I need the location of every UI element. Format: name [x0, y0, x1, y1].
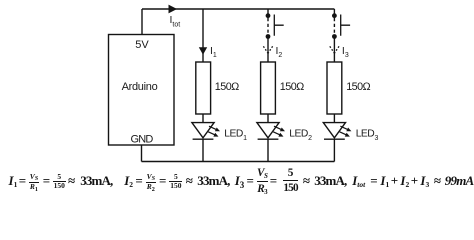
svg-text:LED1: LED1 [224, 129, 247, 142]
wire 5V riser [141, 9, 143, 35]
formula I2 = VS/R2 = 5/150 ~ 33mA [124, 173, 133, 190]
arrow Itot [169, 5, 178, 14]
svg-text:LED2: LED2 [289, 129, 312, 142]
probe bracket branch3 [341, 15, 350, 36]
svg-text:LED3: LED3 [356, 129, 379, 142]
junction dot branch2 bottom [266, 34, 271, 39]
wire top bus [142, 8, 334, 10]
svg-text:5V: 5V [135, 39, 149, 51]
wire GND drop [141, 145, 143, 162]
junction dot branch3 bottom [332, 34, 337, 39]
svg-text:GND: GND [130, 134, 153, 146]
dashed link branch3 [333, 18, 335, 34]
junction dot branch2 top [266, 13, 271, 18]
wire R1 to LED1 [202, 114, 204, 123]
wire branch3 stub [333, 9, 335, 14]
svg-text:150Ω: 150Ω [280, 81, 304, 93]
svg-text:150Ω: 150Ω [215, 81, 239, 93]
probe bracket branch2 [274, 15, 283, 36]
arrow I1 [199, 47, 207, 55]
wire bottom bus [142, 161, 335, 163]
svg-text:150Ω: 150Ω [346, 81, 370, 93]
resistor R2 [261, 62, 276, 114]
LED D3 [323, 123, 351, 140]
wire branch3 to R3 [333, 37, 335, 63]
wire R3 to LED3 [333, 114, 335, 123]
formula Itot = I1 + I2 + I3 ~ 99mA [352, 173, 365, 190]
svg-text:Itot: Itot [170, 14, 181, 28]
svg-text:I3: I3 [342, 45, 349, 59]
wire branch2 to R2 [267, 37, 269, 63]
resistor R3 [327, 62, 342, 114]
dashed arrow I2 [263, 46, 272, 53]
dashed link branch2 [267, 18, 269, 34]
dashed arrow I3 [330, 46, 339, 53]
Arduino U1 [109, 35, 175, 146]
wire LED3 to bus [333, 139, 335, 161]
formula I1 = VS/R1 = 5/150 ~ 33mA [9, 173, 18, 190]
wire branch2 stub [267, 9, 269, 14]
wire branch1 drop [202, 9, 204, 62]
svg-text:I1: I1 [210, 45, 217, 59]
LED D1 [192, 123, 220, 140]
junction dot branch3 top [332, 13, 337, 18]
wire LED1 to bus [202, 139, 204, 161]
LED D2 [257, 123, 285, 140]
wire R2 to LED2 [267, 114, 269, 123]
resistor R1 [196, 62, 211, 114]
formula I3 = VS/R3 = 5/150 ~ 33mA (display style) [235, 173, 245, 190]
svg-text:I2: I2 [276, 45, 283, 59]
svg-text:Arduino: Arduino [122, 81, 158, 93]
wire LED2 to bus [267, 139, 269, 161]
